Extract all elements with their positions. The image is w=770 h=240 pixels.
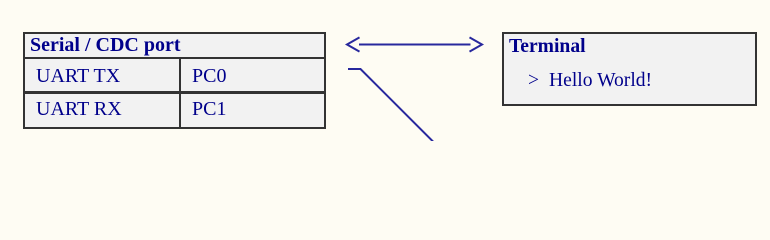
double-headed arrow between table and Terminal (347, 37, 482, 51)
cell PC1 (192, 99, 226, 119)
header text: Serial / CDC port (30, 35, 181, 55)
cell UART TX (36, 66, 120, 86)
cell UART RX (36, 99, 122, 119)
terminal text Hello World! (549, 71, 652, 91)
column divider (179, 57, 181, 127)
Terminal title (509, 37, 586, 57)
terminal prompt > (528, 71, 539, 91)
Terminal box (502, 32, 757, 106)
header divider (23, 57, 326, 59)
overlay svg: arrows and wire (0, 0, 770, 141)
wire: stub from table to lower right (cropped at bottom) (348, 69, 434, 142)
table box: Serial / CDC port (23, 32, 326, 129)
row divider (23, 91, 326, 94)
cell PC0 (192, 66, 226, 86)
